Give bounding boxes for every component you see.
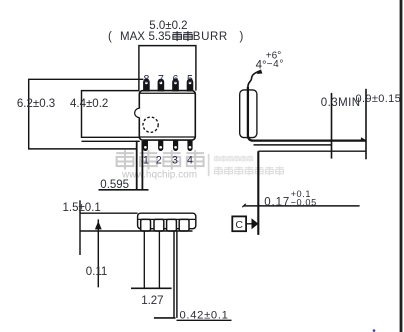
lead tips line [80, 230, 193, 232]
top pins 8 7 6 5 [143, 79, 193, 92]
note text ( MAX 5.35包括BURR ) [108, 31, 244, 43]
svg-text:0.42±0.1: 0.42±0.1 [180, 309, 229, 321]
svg-text:8: 8 [143, 73, 149, 85]
datum vertical line [257, 151, 259, 235]
svg-text:3: 3 [172, 154, 178, 166]
dimension 0.595 [137, 141, 143, 190]
pin1 dimple dashed circle [143, 117, 158, 132]
svg-text:5.35: 5.35 [149, 31, 171, 43]
svg-text:2: 2 [156, 154, 162, 166]
datum leader with arrow [246, 223, 252, 225]
svg-text:0.9±0.15: 0.9±0.15 [356, 93, 402, 105]
extension line to 1.5 dim [80, 212, 138, 214]
pin numbers 1 2 3 4 [143, 154, 193, 166]
extension line A [331, 93, 333, 159]
svg-text:1.27: 1.27 [141, 295, 163, 307]
svg-text:BURR: BURR [193, 31, 228, 43]
dimension line 1.27 [131, 287, 172, 289]
lead centerline extensions for 1.27 [144, 231, 159, 288]
svg-text:6: 6 [173, 73, 179, 85]
svg-text:0.17: 0.17 [264, 197, 290, 209]
watermark separator bar [208, 154, 210, 176]
package body top view [139, 91, 195, 141]
svg-text:1.5±0.1: 1.5±0.1 [63, 202, 101, 214]
pin numbers 8 7 6 5 [143, 73, 193, 85]
svg-text:C: C [235, 219, 243, 231]
watermark logo text 华强芯城 [116, 150, 204, 169]
front view leads [141, 219, 189, 231]
right border line [400, 0, 403, 332]
dimension 6.2±0.3 [29, 79, 144, 149]
watermark tagline line2 元器件在线商城 [214, 166, 283, 175]
svg-text:4: 4 [187, 154, 193, 166]
small blue dot bottom right [373, 329, 376, 332]
seating plane H3 [258, 150, 366, 152]
svg-text:0.595: 0.595 [100, 179, 129, 191]
svg-text:6.2±0.3: 6.2±0.3 [17, 98, 55, 110]
lead line thick with bend [248, 87, 366, 141]
svg-text:): ) [240, 31, 244, 43]
svg-text:MAX: MAX [120, 31, 145, 43]
body inner top line [140, 92, 195, 94]
svg-text:1: 1 [143, 154, 149, 166]
dimension 4.4±0.2 [82, 91, 140, 142]
svg-text:0.11: 0.11 [86, 266, 108, 278]
parting line [138, 218, 195, 220]
foot bottom line H2 [254, 144, 332, 146]
dimension 0.11 [97, 219, 99, 287]
extension line B [365, 89, 367, 160]
svg-text:−4°: −4° [267, 59, 285, 70]
lead edge extensions for 0.42 [174, 231, 177, 318]
left edge notch [138, 109, 140, 118]
dimension line 0.17 [244, 205, 360, 207]
svg-text:www.hqchip.com: www.hqchip.com [121, 170, 197, 181]
dimension line 5.0 with extension lines [139, 46, 196, 91]
svg-text:7: 7 [158, 73, 164, 85]
svg-text:4.4±0.2: 4.4±0.2 [70, 98, 108, 110]
watermark tagline line1 华强集团旗下 [214, 156, 253, 162]
arrowhead on H1 at B [361, 137, 366, 140]
body inner bottom line [140, 136, 195, 138]
dimension 1.5±0.1 [79, 200, 81, 255]
seating line [154, 317, 176, 319]
leader S-curve from 4° to lead [248, 71, 260, 87]
datum C box [232, 216, 246, 231]
side view body outline [240, 90, 257, 138]
front view body [138, 213, 196, 229]
svg-text:5: 5 [187, 73, 193, 85]
bottom pins 1 2 3 4 [143, 140, 193, 151]
svg-text:−0.05: −0.05 [291, 197, 317, 207]
svg-text:(: ( [108, 31, 112, 43]
